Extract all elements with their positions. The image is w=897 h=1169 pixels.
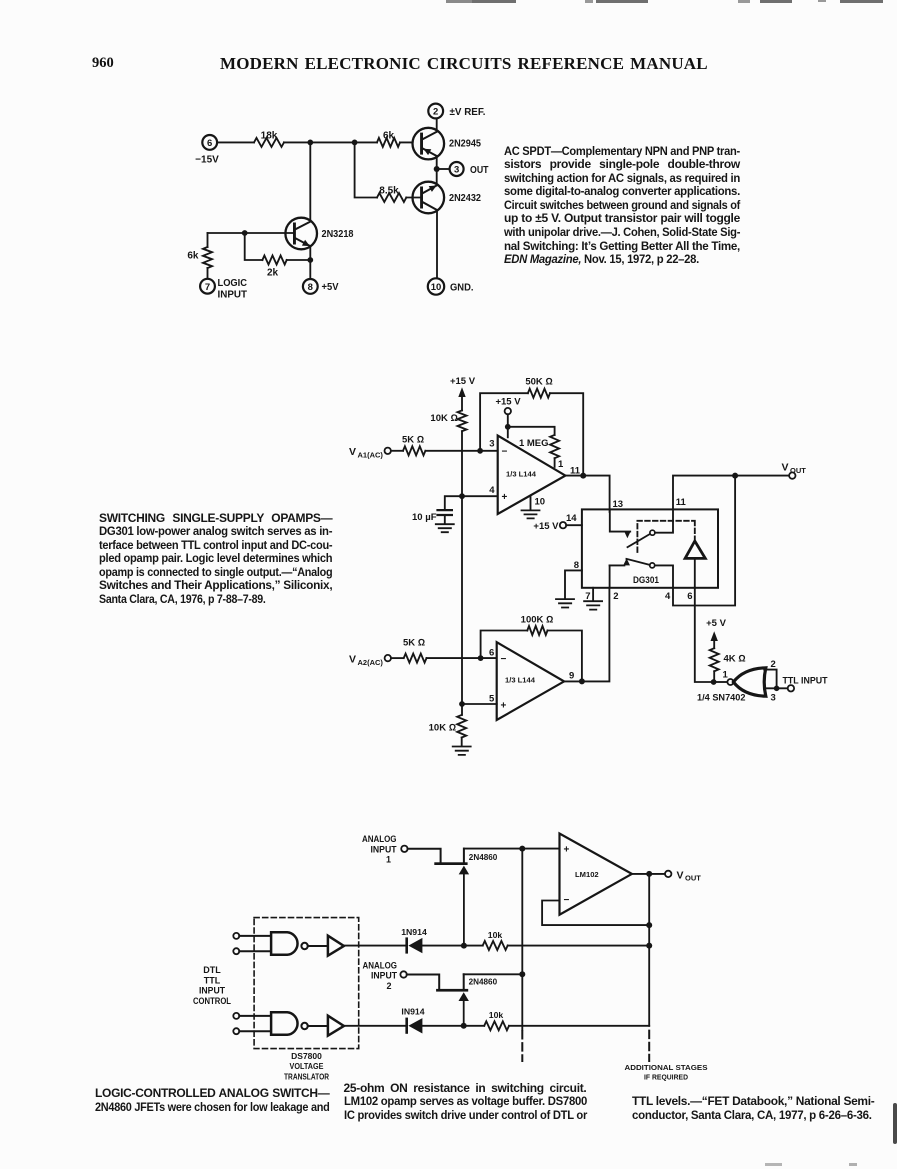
junction 4K/NOR xyxy=(711,679,717,685)
wire to 1MEG xyxy=(508,427,555,435)
junction D emitter/2k xyxy=(307,257,313,263)
pin 8 wire to ground xyxy=(565,570,582,598)
svg-text:8: 8 xyxy=(574,560,579,571)
svg-text:10 µF: 10 µF xyxy=(412,512,437,523)
svg-text:CONTROL: CONTROL xyxy=(193,996,231,1006)
svg-text:1 MEG: 1 MEG xyxy=(519,438,549,449)
svg-text:2: 2 xyxy=(613,591,618,602)
inverter B2 xyxy=(328,1016,344,1036)
wire 5K to opamp2 inverting input xyxy=(427,657,497,659)
svg-text:OUT: OUT xyxy=(790,466,806,475)
node VA1 input xyxy=(349,446,391,460)
wire VA2 to 5K xyxy=(391,657,404,659)
ground pin10 xyxy=(522,510,540,518)
wire Q1 emitter to Q2 emitter xyxy=(436,156,438,185)
svg-text:INPUT: INPUT xyxy=(371,971,397,981)
wire to VOUT terminal xyxy=(735,475,789,477)
wire node A down to Q3 collector xyxy=(309,142,311,221)
resistor 10k (row 1) xyxy=(483,930,508,950)
wire B1 to diode D1 xyxy=(344,945,405,947)
svg-text:1: 1 xyxy=(723,670,729,681)
svg-text:IN914: IN914 xyxy=(401,1006,424,1016)
svg-text:OUT: OUT xyxy=(685,874,701,883)
ground pin8 xyxy=(556,599,574,607)
wire S1 throw to pin 11 xyxy=(655,476,735,533)
caption column 3 xyxy=(632,1095,875,1122)
svg-text:7: 7 xyxy=(585,591,590,602)
resistor 18k xyxy=(254,131,284,147)
svg-text:LM102: LM102 xyxy=(575,870,599,879)
wire JFET2 drain to bus xyxy=(464,973,523,975)
junction supply/1MEG xyxy=(505,424,511,430)
terminal 2 xyxy=(428,104,443,119)
wire +15V into opamp top xyxy=(507,414,509,437)
svg-text:INPUT: INPUT xyxy=(218,290,248,301)
switch S2 xyxy=(610,558,655,568)
wire node B down to 8.5k xyxy=(355,142,377,197)
junction pins 2-3 xyxy=(774,686,780,692)
junction output/feedback 2 xyxy=(579,678,585,684)
resistor 10K upper xyxy=(430,410,466,431)
junction bias/+input 2 xyxy=(459,701,465,707)
junction control row 1 / bus xyxy=(646,943,652,949)
wire JFET1 drain to opamp xyxy=(464,848,560,850)
resistor 10K lower xyxy=(429,715,467,738)
svg-text:18k: 18k xyxy=(261,131,278,142)
TTL INPUT terminal xyxy=(783,675,828,691)
svg-text:−: − xyxy=(502,446,508,457)
svg-text:+15 V: +15 V xyxy=(533,521,559,532)
op-amp U1 1/3 L144 xyxy=(498,436,566,515)
capacitor 10uF xyxy=(412,510,452,523)
svg-text:+5V: +5V xyxy=(322,282,339,293)
G1 output bubble xyxy=(301,943,307,949)
svg-text:100K Ω: 100K Ω xyxy=(521,614,554,625)
wire R18k to node B xyxy=(284,141,377,143)
page number xyxy=(92,55,114,72)
+5V supply arrow xyxy=(706,618,726,648)
wire junction C down to 2k xyxy=(245,233,263,260)
transistor Q1 2N2945 xyxy=(413,128,482,160)
svg-text:11: 11 xyxy=(676,497,687,508)
svg-text:10K Ω: 10K Ω xyxy=(430,413,457,424)
junction gate 2 xyxy=(461,1023,467,1029)
diode D1 1N914 xyxy=(401,927,427,954)
svg-text:+: + xyxy=(502,492,508,503)
transistor Q2 2N2432 xyxy=(413,182,482,214)
wire node6 to R18k xyxy=(217,141,254,143)
svg-text:−: − xyxy=(501,654,507,665)
wire to terminal 3 xyxy=(440,168,450,170)
resistor 6k vertical xyxy=(187,247,212,268)
resistor 8.5k (base of Q2) xyxy=(377,185,406,202)
svg-text:6: 6 xyxy=(207,138,212,149)
svg-text:TTL INPUT: TTL INPUT xyxy=(783,675,828,686)
wire 1MEG to pin1 on opamp xyxy=(554,458,556,467)
svg-text:INPUT: INPUT xyxy=(371,844,397,854)
DS7800 dashed box xyxy=(254,918,359,1049)
svg-text:6: 6 xyxy=(489,648,494,659)
label ANALOG INPUT 1 xyxy=(362,834,397,865)
resistor 1 MEG xyxy=(519,435,559,458)
svg-text:+5 V: +5 V xyxy=(706,618,726,629)
feedback wire down to output xyxy=(550,393,583,475)
svg-text:GND.: GND. xyxy=(450,282,474,293)
svg-text:4K Ω: 4K Ω xyxy=(724,654,746,665)
caption column 2 xyxy=(344,1082,587,1123)
VOUT terminal xyxy=(782,461,807,478)
pin 7 stub to ground xyxy=(592,588,594,601)
resistor 6k (base of Q1) xyxy=(377,131,400,147)
resistor 5K (stage 1) xyxy=(402,435,425,456)
svg-text:10k: 10k xyxy=(488,930,503,940)
svg-text:13: 13 xyxy=(613,499,624,510)
wire 2k to emitter node xyxy=(287,259,311,261)
caption column 1: LOGIC-CONTROLLED ANALOG SWITCH xyxy=(95,1087,330,1114)
inverter B1 xyxy=(328,936,344,956)
junction output/feedback LM102 xyxy=(646,871,652,877)
terminal 3 xyxy=(450,162,464,176)
wire Q3 base xyxy=(208,232,294,234)
caption paragraph: AC SPDT xyxy=(504,145,740,267)
svg-text:OUT: OUT xyxy=(470,165,489,176)
NAND gate G2 body xyxy=(271,1012,297,1035)
right bus vertical xyxy=(648,925,650,1026)
wire input1 to JFET source xyxy=(408,849,441,863)
feedback wire down to output 2 xyxy=(548,631,582,682)
wire 8.5k to Q2 base xyxy=(406,197,421,199)
wire Q1 collector to terminal 2 xyxy=(436,119,438,132)
resistor 100K xyxy=(521,614,554,635)
svg-text:A2(AC): A2(AC) xyxy=(358,658,384,667)
junction gate 1 xyxy=(461,943,467,949)
op-amp U2 1/3 L144 xyxy=(497,642,564,720)
pin 10 ground stub xyxy=(531,497,546,510)
svg-text:V: V xyxy=(349,446,356,458)
svg-text:TTL: TTL xyxy=(204,975,221,985)
svg-text:+: + xyxy=(564,845,570,856)
NOR gate 1/4 SN7402 (mirrored) xyxy=(727,668,765,696)
terminal 8 xyxy=(303,279,318,294)
svg-text:±V REF.: ±V REF. xyxy=(450,107,486,118)
svg-text:2k: 2k xyxy=(267,268,279,279)
svg-text:V: V xyxy=(782,461,789,473)
svg-text:ADDITIONAL STAGES: ADDITIONAL STAGES xyxy=(625,1063,708,1072)
pin 3 wire xyxy=(764,687,787,689)
junction B xyxy=(352,140,358,146)
svg-text:V: V xyxy=(349,653,356,665)
wire base node down to 6k vertical xyxy=(207,233,209,247)
svg-text:2N3218: 2N3218 xyxy=(322,228,354,240)
analog input 2 terminal xyxy=(400,971,406,977)
+15V supply arrow (bias divider) xyxy=(450,376,476,410)
terminal 10 xyxy=(428,278,444,294)
wire D1 to gate node 1 xyxy=(422,945,482,947)
svg-text:3: 3 xyxy=(489,438,494,449)
wire DG301 pin6 down to NOR output node xyxy=(695,588,711,682)
feedback wire LM102 xyxy=(542,874,649,925)
svg-text:10K Ω: 10K Ω xyxy=(429,722,456,733)
wire D2 to gate node 2 xyxy=(422,1025,484,1027)
scan artifacts top edge xyxy=(446,0,472,3)
resistor 4K xyxy=(710,648,746,671)
wire input2 to JFET2 source xyxy=(407,975,439,989)
label DS7800 VOLTAGE TRANSLATOR xyxy=(284,1051,329,1081)
svg-text:1: 1 xyxy=(386,855,391,865)
ground pin7 xyxy=(584,601,602,609)
svg-text:14: 14 xyxy=(566,513,577,524)
terminal 7 xyxy=(200,279,215,294)
svg-text:4: 4 xyxy=(489,485,495,496)
analog input 1 terminal xyxy=(401,846,407,852)
node VA2 input xyxy=(349,653,391,667)
wire driver input from pin 6 xyxy=(694,558,696,587)
pin 2 wire xyxy=(764,670,776,686)
svg-text:−15V: −15V xyxy=(195,155,219,166)
svg-text:1: 1 xyxy=(558,459,564,470)
wire 10k row1 to bus xyxy=(508,945,650,947)
svg-text:2: 2 xyxy=(386,981,391,991)
VOUT terminal circuit3 xyxy=(665,869,701,882)
junction C on base wire xyxy=(242,230,248,236)
svg-text:+15 V: +15 V xyxy=(450,376,476,387)
svg-text:8: 8 xyxy=(308,282,313,293)
svg-text:ANALOG: ANALOG xyxy=(363,960,398,970)
svg-text:6: 6 xyxy=(687,591,692,602)
+15V terminal pin14 xyxy=(533,521,581,532)
svg-text:2N4860: 2N4860 xyxy=(469,977,498,987)
wire 10k row2 to bus corner xyxy=(509,1025,649,1027)
running head title xyxy=(220,54,708,74)
svg-text:10k: 10k xyxy=(489,1010,504,1020)
dashed additional stages left xyxy=(521,1031,523,1061)
svg-text:2N2945: 2N2945 xyxy=(449,138,481,150)
svg-text:5K Ω: 5K Ω xyxy=(402,435,424,446)
svg-text:VOLTAGE: VOLTAGE xyxy=(290,1061,324,1071)
wire 6k to terminal 7 xyxy=(207,268,209,279)
transistor Q3 2N3218 xyxy=(285,218,353,250)
junction drains bus top xyxy=(519,846,525,852)
junction output/feedback 1 xyxy=(580,473,586,479)
svg-text:1/4 SN7402: 1/4 SN7402 xyxy=(697,693,746,704)
junction Vout branch xyxy=(732,473,738,479)
svg-text:10: 10 xyxy=(431,282,442,293)
wire opamp2 output to DG301 pin2 xyxy=(564,588,609,682)
svg-text:ANALOG: ANALOG xyxy=(362,834,397,844)
wire 6k to Q1 base xyxy=(400,141,421,143)
label LOGIC INPUT xyxy=(218,278,248,301)
feedback loop 100K wire up xyxy=(481,631,528,659)
svg-text:−: − xyxy=(564,895,570,906)
switch S2 throw wire pin 4 xyxy=(655,565,673,587)
driver amplifier triangle xyxy=(685,541,705,558)
bias rail vertical wire xyxy=(461,431,463,704)
junction bias / +input 1 xyxy=(459,493,465,499)
op-amp U3 LM102 xyxy=(560,834,632,915)
wire to 10uF cap xyxy=(445,496,462,510)
G2 output bubble xyxy=(301,1023,307,1029)
svg-text:TRANSLATOR: TRANSLATOR xyxy=(284,1071,329,1081)
terminal 6 xyxy=(202,135,217,150)
wire bias to +input opamp1 xyxy=(462,495,497,497)
svg-text:4: 4 xyxy=(665,591,671,602)
svg-text:5: 5 xyxy=(489,694,495,705)
junction OUT node xyxy=(434,166,440,172)
NAND gate G2 input terminals xyxy=(233,1013,239,1034)
+15V terminal for opamp1 xyxy=(495,396,521,414)
resistor 10k (row 2) xyxy=(484,1010,509,1030)
svg-text:DG301: DG301 xyxy=(633,575,660,586)
svg-text:2N2432: 2N2432 xyxy=(449,192,481,204)
junction feedback/bus xyxy=(646,922,652,928)
feedback loop 50K wire up xyxy=(480,393,528,451)
svg-text:IF REQUIRED: IF REQUIRED xyxy=(644,1072,688,1081)
svg-text:9: 9 xyxy=(569,671,574,682)
G1 input wires xyxy=(239,936,271,951)
scan artifact right edge blob xyxy=(893,1103,897,1144)
svg-text:7: 7 xyxy=(205,282,210,293)
wire pin2 pole down xyxy=(609,565,611,587)
resistor 50K xyxy=(525,376,552,397)
wire VA1 to R5K xyxy=(391,450,403,452)
wire node to NOR output bubble xyxy=(717,681,728,683)
svg-text:6k: 6k xyxy=(187,251,199,262)
svg-text:LOGIC: LOGIC xyxy=(218,278,248,289)
dashed control linkage xyxy=(637,521,694,552)
svg-text:10: 10 xyxy=(535,497,546,508)
wire Q2 collector to terminal 10 xyxy=(436,210,438,278)
svg-text:50K Ω: 50K Ω xyxy=(525,376,552,387)
ground 10uF xyxy=(436,524,454,532)
wire B2 to diode D2 xyxy=(344,1025,405,1027)
ground lower 10K xyxy=(453,747,471,755)
svg-text:DS7800: DS7800 xyxy=(291,1051,322,1061)
wire G1 to inverter B1 xyxy=(308,945,328,947)
svg-text:6k: 6k xyxy=(383,131,395,142)
wire opamp1 output to DG301 pin13 xyxy=(565,476,609,512)
NAND gate G1 input terminals xyxy=(233,933,239,954)
svg-text:2: 2 xyxy=(433,107,438,118)
svg-text:1N914: 1N914 xyxy=(401,927,427,937)
diode D2 IN914 xyxy=(401,1006,424,1033)
caption paragraph: SWITCHING SINGLE-SUPPLY OPAMPS xyxy=(99,512,332,607)
svg-text:V: V xyxy=(677,869,684,881)
svg-text:INPUT: INPUT xyxy=(199,986,225,996)
svg-text:DTL: DTL xyxy=(203,965,221,975)
JFET Q4 2N4860 (switch 1) xyxy=(434,849,497,946)
label ANALOG INPUT 2 xyxy=(363,960,398,991)
junction feedback/input 1 xyxy=(477,448,483,454)
NAND gate G1 body xyxy=(271,932,297,955)
junction feedback/input 2 xyxy=(478,655,484,661)
svg-text:2N4860: 2N4860 xyxy=(469,852,498,862)
svg-text:8.5k: 8.5k xyxy=(379,185,399,196)
DG301 analog switch box xyxy=(582,509,718,587)
svg-text:A1(AC): A1(AC) xyxy=(358,451,384,460)
resistor 5K (stage 2) xyxy=(403,637,427,662)
resistor 2k xyxy=(262,256,286,279)
wire LM102 output xyxy=(632,873,665,875)
wire 4K to node xyxy=(713,671,715,682)
wire bias rail to lower 10K xyxy=(461,704,463,715)
label DTL TTL INPUT CONTROL xyxy=(193,965,231,1006)
G2 input wires xyxy=(239,1016,271,1031)
svg-text:+: + xyxy=(501,700,507,711)
wire 10K to ground xyxy=(461,738,463,746)
drain bus vertical xyxy=(521,849,523,1030)
svg-text:3: 3 xyxy=(454,165,459,176)
svg-text:5K Ω: 5K Ω xyxy=(403,637,425,648)
wire VOUT node down to pin 4 xyxy=(673,476,735,606)
svg-text:1/3 L144: 1/3 L144 xyxy=(506,470,537,479)
svg-text:1/3 L144: 1/3 L144 xyxy=(505,675,536,684)
dashed additional stages right xyxy=(648,1031,650,1061)
wire G2 to inverter B2 xyxy=(308,1025,328,1027)
switch S1 pole arm xyxy=(610,509,655,547)
JFET Q5 2N4860 (switch 2) xyxy=(436,974,497,1026)
svg-text:+15 V: +15 V xyxy=(495,396,521,407)
svg-text:3: 3 xyxy=(771,692,776,703)
junction drain2/bus xyxy=(519,971,525,977)
svg-text:2: 2 xyxy=(771,659,776,670)
wire Q3 emitter down xyxy=(309,246,311,279)
wire R5K to opamp1 inverting input xyxy=(425,450,497,452)
junction A xyxy=(307,140,313,146)
label ADDITIONAL STAGES IF REQUIRED xyxy=(625,1063,708,1082)
wire bias to +input opamp2 xyxy=(462,703,497,705)
